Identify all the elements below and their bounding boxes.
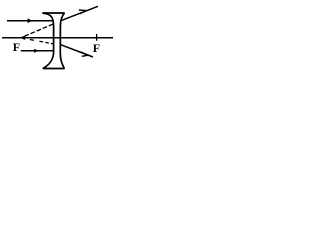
incident ray 1 xyxy=(7,20,53,22)
optical axis xyxy=(2,37,113,39)
arrowhead incident ray 1 xyxy=(28,18,32,23)
arrowhead refracted ray 1 upper wing xyxy=(79,9,86,12)
convergence arrowhead at left focal point F xyxy=(20,35,25,40)
lens left surface xyxy=(43,13,54,68)
svg-text:F: F xyxy=(13,40,20,54)
lens bottom edge xyxy=(43,68,65,70)
incident ray 2 xyxy=(21,50,54,52)
svg-text:F: F xyxy=(93,41,100,55)
lens top edge xyxy=(42,12,64,14)
dashed extension of ray 2 to focal point xyxy=(30,40,54,44)
arrowhead refracted ray 2 lower wing xyxy=(82,55,88,56)
arrowhead incident ray 2 xyxy=(34,49,38,53)
right focal point tick xyxy=(96,34,98,41)
refracted ray 1 xyxy=(61,6,98,20)
lens right surface xyxy=(60,13,64,68)
dashed extension of ray 1 to focal point xyxy=(25,24,54,36)
arrowhead refracted ray 2 upper wing xyxy=(80,52,88,55)
refracted ray 2 xyxy=(60,45,93,57)
arrowhead refracted ray 1 lower wing xyxy=(80,11,86,14)
